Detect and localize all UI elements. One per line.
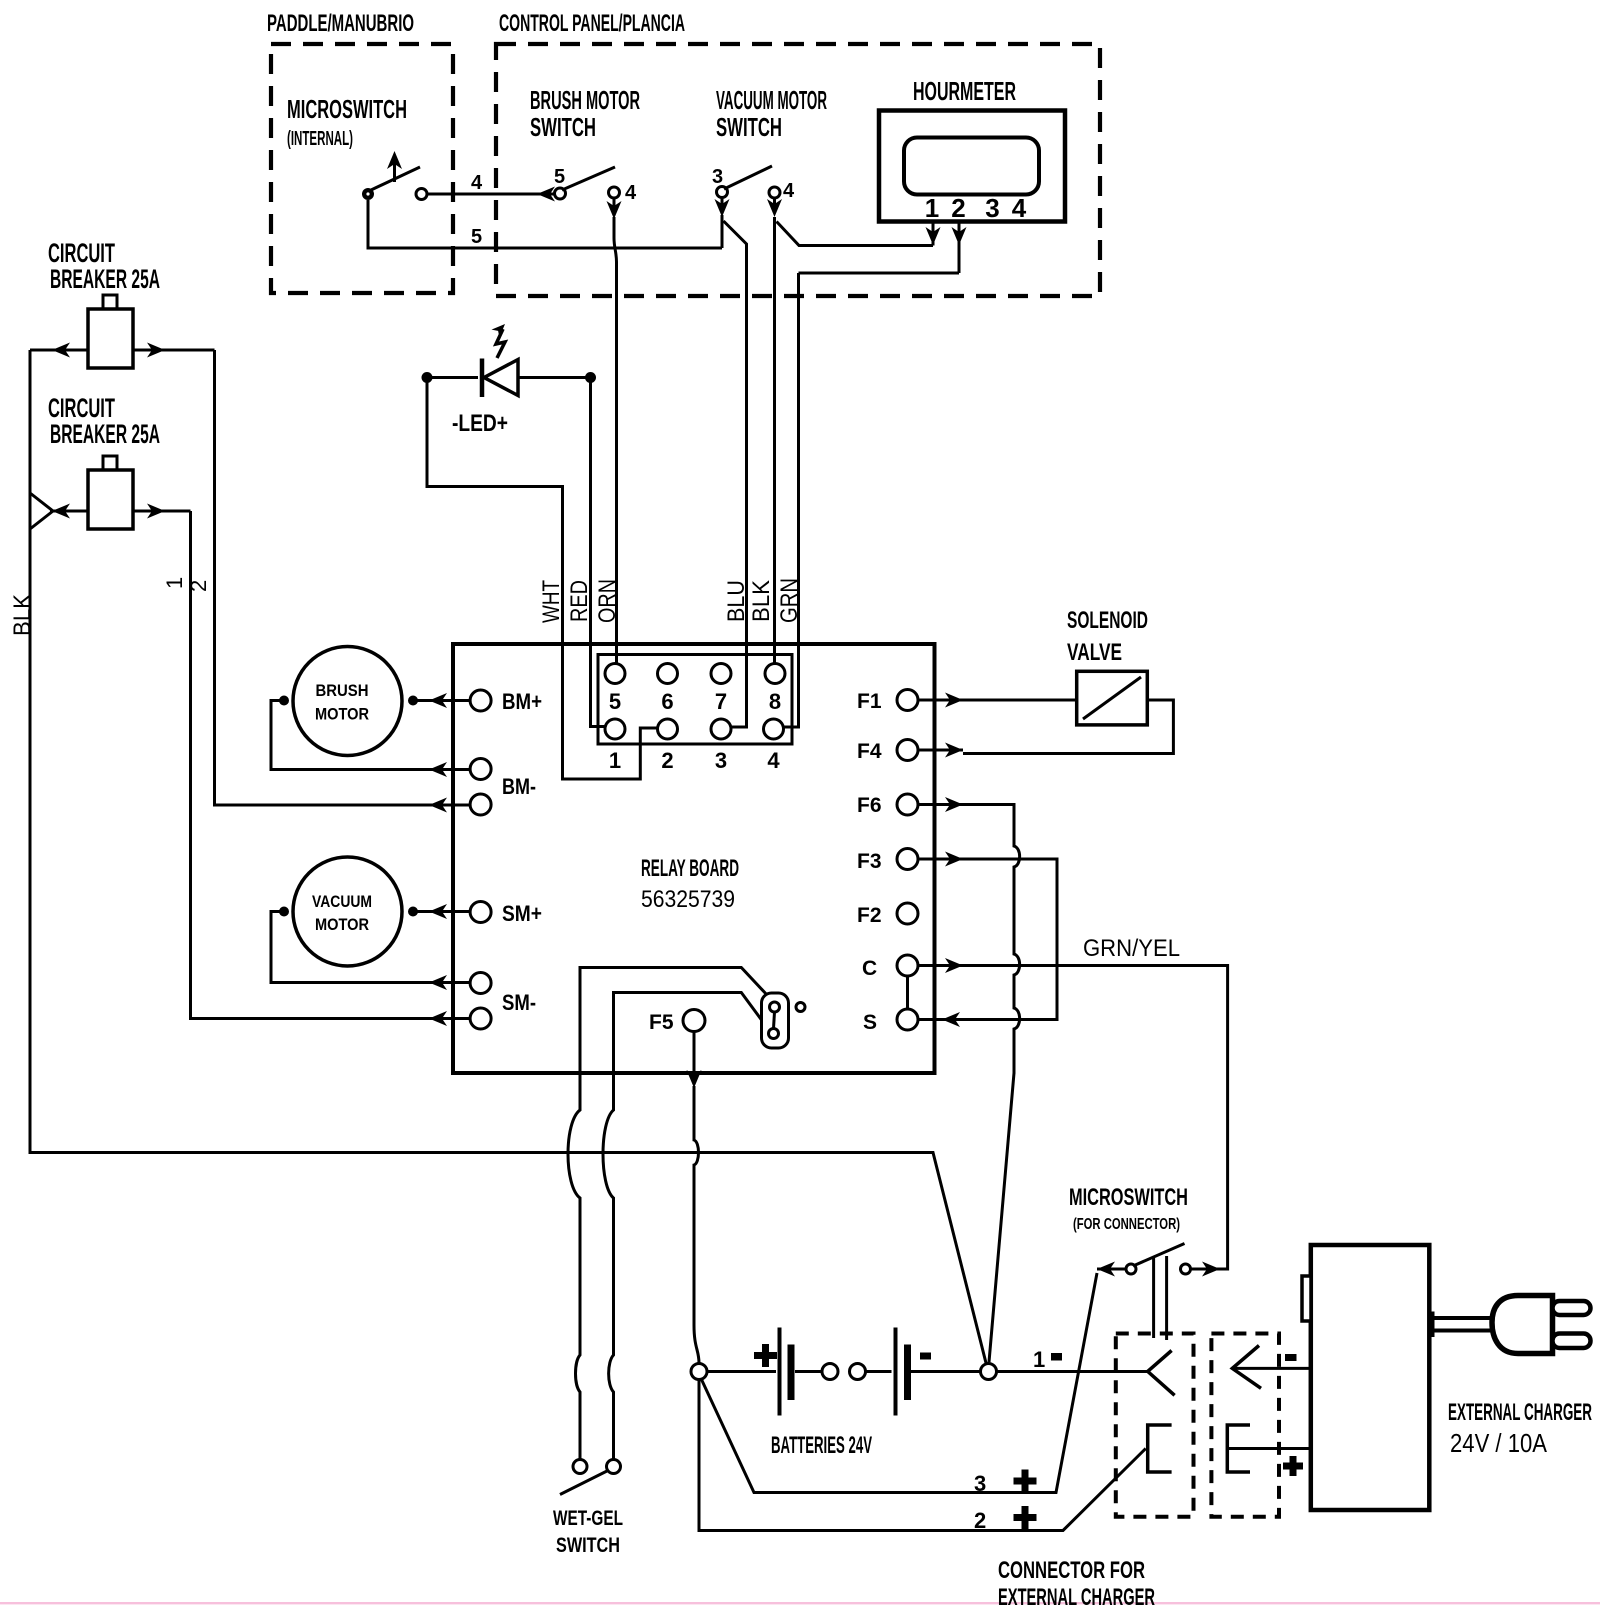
board trace to wet-gel switch left: [580, 968, 768, 1109]
svg-text:BLK: BLK: [9, 594, 36, 636]
terminal C: [862, 955, 963, 980]
terminal BM- bottom: [470, 794, 491, 815]
microswitch S5 (for connector): [1097, 1244, 1191, 1277]
svg-text:4: 4: [471, 172, 483, 194]
battery link circles: [822, 1364, 866, 1380]
node battery junction right: [981, 1364, 997, 1380]
circuit breaker CB2: [30, 456, 191, 529]
svg-text:F2: F2: [857, 904, 882, 927]
svg-text:F5: F5: [649, 1011, 674, 1034]
svg-text:6: 6: [661, 689, 673, 714]
pink scan artifact line: [0, 1602, 1600, 1604]
svg-text:4: 4: [767, 748, 780, 773]
svg-text:CONNECTOR FOR: CONNECTOR FOR: [998, 1557, 1145, 1584]
wet-gel switch label: [553, 1507, 623, 1557]
svg-text:2: 2: [661, 748, 673, 773]
AC cord: [1432, 1312, 1492, 1338]
terminal BM- top: [470, 759, 491, 780]
svg-text:BATTERIES 24V: BATTERIES 24V: [771, 1432, 872, 1459]
jumper plug JP1: [762, 993, 806, 1048]
wire 3 battery junction to connector lug: [702, 1273, 1098, 1496]
svg-text:5: 5: [471, 226, 482, 248]
wire F3 to S: [918, 859, 1057, 1020]
connector pin arrow right top: [1232, 1346, 1311, 1389]
connector pin 3: [711, 719, 731, 739]
terminal F4: [857, 740, 963, 764]
node battery junction left: [691, 1364, 707, 1380]
svg-text:BM-: BM-: [502, 774, 536, 799]
svg-text:BREAKER 25A: BREAKER 25A: [50, 419, 160, 449]
wire vacuum motor loop to SM-: [271, 912, 470, 991]
connector pin 2: [658, 719, 678, 739]
wire GRN (hourmeter pin2 to relay pin 4): [784, 273, 799, 727]
svg-text:SM-: SM-: [502, 990, 536, 1015]
connector pin 6: [658, 664, 678, 684]
wire brush motor loop to BM-: [271, 701, 470, 778]
svg-text:ORN: ORN: [594, 579, 621, 623]
svg-text:SM+: SM+: [502, 901, 542, 926]
connector pin bracket left bottom: [1148, 1425, 1172, 1472]
wire C to microswitch GRN/YEL: [918, 935, 1228, 1277]
connector dashed box right: [1211, 1334, 1279, 1517]
battery B1: [707, 1328, 822, 1416]
wire ORN (brush switch out to relay pin 5): [614, 217, 617, 664]
microswitch dangling leads: [1154, 1256, 1167, 1340]
vacuum motor M3: [279, 857, 418, 966]
svg-text:BLK: BLK: [748, 580, 775, 622]
board trace to wet-gel switch right: [614, 993, 767, 1109]
brush motor M2: [279, 647, 418, 756]
svg-text:SWITCH: SWITCH: [556, 1534, 620, 1557]
link C to S: [906, 976, 909, 1009]
relay board label: [641, 855, 739, 913]
relay connector J1: [598, 655, 792, 774]
terminal S: [863, 1009, 960, 1034]
wire BLU (vacuum switch common to relay pin 3): [724, 221, 747, 727]
svg-text:3: 3: [985, 193, 999, 223]
connector pin 7: [711, 664, 731, 684]
vacuum motor switch label: [716, 85, 827, 142]
terminal F1: [857, 690, 963, 714]
svg-text:C: C: [862, 957, 877, 980]
svg-text:GRN: GRN: [776, 578, 803, 623]
svg-text:EXTERNAL CHARGER: EXTERNAL CHARGER: [1448, 1399, 1592, 1426]
connector pin 1: [605, 719, 625, 739]
svg-text:5: 5: [609, 689, 621, 714]
terminal SM- top: [470, 973, 491, 994]
wire net 5 (microswitch to vacuum switch common): [368, 200, 722, 248]
AC plug: [1492, 1296, 1591, 1354]
vacuum motor switch S3: [712, 166, 795, 217]
connector pin 4: [764, 719, 784, 739]
svg-text:BM+: BM+: [502, 689, 542, 714]
connector for external charger label: [998, 1557, 1155, 1608]
terminal F5: [649, 1010, 705, 1035]
svg-text:WHT: WHT: [538, 580, 565, 623]
svg-text:1: 1: [1033, 1347, 1045, 1372]
svg-text:MOTOR: MOTOR: [315, 915, 369, 934]
wire 2 battery junction to connector pin: [699, 1380, 1146, 1534]
wire BLK (vacuum switch out to relay pin 8): [773, 217, 776, 664]
terminal F3: [857, 849, 963, 874]
wire vacuum motor to SM+: [417, 904, 470, 919]
svg-text:8: 8: [769, 689, 781, 714]
svg-text:3: 3: [974, 1471, 986, 1496]
svg-text:SWITCH: SWITCH: [716, 112, 782, 142]
svg-text:4: 4: [625, 182, 637, 204]
svg-text:3: 3: [712, 166, 723, 188]
connector pin bracket right bottom: [1227, 1425, 1311, 1476]
relay board outline: [453, 644, 935, 1073]
terminal F6: [857, 794, 963, 817]
svg-text:BLU: BLU: [723, 580, 750, 622]
microswitch (for connector) label: [1069, 1184, 1188, 1233]
svg-text:(FOR CONNECTOR): (FOR CONNECTOR): [1073, 1216, 1180, 1233]
external charger box: [1302, 1245, 1429, 1510]
wire F5 down to battery junction: [687, 1032, 702, 1364]
svg-text:F3: F3: [857, 850, 882, 873]
microswitch S1 (internal): [362, 151, 427, 200]
svg-text:1: 1: [609, 748, 621, 773]
brush motor switch S2: [554, 166, 637, 219]
svg-text:3: 3: [715, 748, 727, 773]
svg-text:F1: F1: [857, 690, 882, 713]
svg-text:MICROSWITCH: MICROSWITCH: [1069, 1184, 1188, 1211]
svg-text:VACUUM MOTOR: VACUUM MOTOR: [716, 85, 827, 115]
circuit breaker CB1 label: [48, 238, 160, 294]
microswitch (internal) label: [287, 94, 407, 150]
battery B2: [866, 1328, 981, 1416]
wire WHT (LED- to relay pin 2): [427, 380, 658, 779]
svg-text:HOURMETER: HOURMETER: [913, 76, 1016, 106]
svg-text:RELAY BOARD: RELAY BOARD: [641, 855, 739, 882]
wire 1 (CB2 to SM-): [162, 511, 470, 1026]
svg-text:2: 2: [951, 193, 965, 223]
svg-text:VALVE: VALVE: [1067, 639, 1122, 666]
circuit breaker CB2 label: [48, 393, 160, 449]
terminal F2: [857, 903, 918, 927]
svg-text:BRUSH: BRUSH: [316, 681, 369, 700]
wire vacuum switch out to hourmeter pin 1: [777, 222, 934, 246]
LED D1: [422, 320, 597, 437]
connector pin arrow left top: [1148, 1351, 1175, 1396]
svg-text:-LED+: -LED+: [452, 410, 508, 437]
wire 2 (CB1 to BM-): [186, 350, 470, 813]
svg-text:WET-GEL: WET-GEL: [553, 1507, 623, 1530]
svg-text:4: 4: [783, 180, 795, 202]
connector dashed box left: [1116, 1334, 1194, 1517]
svg-text:F4: F4: [857, 740, 882, 763]
wire BLK battery negative rail: [30, 350, 986, 1363]
terminal SM+: [470, 901, 542, 926]
wet-gel switch S4: [560, 1460, 621, 1495]
wire net 4 (microswitch to brush switch): [427, 172, 555, 202]
hourmeter M1: [879, 111, 1065, 224]
external charger label: [1448, 1399, 1592, 1458]
svg-text:BREAKER 25A: BREAKER 25A: [50, 264, 160, 294]
svg-text:MICROSWITCH: MICROSWITCH: [287, 94, 407, 124]
svg-text:(INTERNAL): (INTERNAL): [287, 128, 353, 150]
svg-text:56325739: 56325739: [641, 886, 735, 913]
hourmeter pin 2 lead: [952, 222, 967, 274]
wire wet-gel left: [568, 1108, 580, 1459]
wire brush motor to BM+: [417, 693, 470, 708]
circuit breaker CB1: [30, 295, 215, 368]
svg-text:RED: RED: [566, 580, 593, 622]
solenoid valve label: [1067, 607, 1148, 666]
svg-text:S: S: [863, 1011, 877, 1034]
wire F1 to solenoid valve: [963, 699, 1077, 702]
hourmeter pin 1 lead: [926, 222, 941, 246]
svg-text:1: 1: [162, 577, 187, 589]
connector pin 5: [605, 664, 625, 684]
wire F6 to battery junction (with hops): [963, 805, 1020, 1363]
wire wet-gel right: [603, 1108, 614, 1459]
svg-text:MOTOR: MOTOR: [315, 705, 369, 724]
svg-text:7: 7: [715, 689, 727, 714]
svg-text:SOLENOID: SOLENOID: [1067, 607, 1148, 634]
connector pin 8: [765, 664, 785, 684]
svg-text:4: 4: [1012, 193, 1027, 223]
brush motor switch label: [530, 85, 640, 142]
svg-text:1: 1: [925, 193, 939, 223]
svg-text:GRN/YEL: GRN/YEL: [1083, 935, 1180, 962]
terminal BM+: [470, 689, 542, 714]
svg-text:VACUUM: VACUUM: [312, 892, 372, 911]
wire solenoid valve to F4: [963, 700, 1173, 754]
svg-text:F6: F6: [857, 794, 882, 817]
svg-text:2: 2: [974, 1508, 986, 1533]
svg-text:5: 5: [554, 166, 565, 188]
terminal SM- bottom: [470, 1008, 491, 1029]
svg-text:CONTROL PANEL/PLANCIA: CONTROL PANEL/PLANCIA: [499, 10, 685, 37]
solenoid valve SV1: [1077, 671, 1148, 725]
wire hourmeter pin 2 to GRN: [799, 272, 960, 275]
svg-text:EXTERNAL CHARGER: EXTERNAL CHARGER: [998, 1584, 1155, 1608]
wire 1 battery to connector: [997, 1347, 1148, 1372]
control panel dashed enclosure: [496, 44, 1100, 296]
svg-text:PADDLE/MANUBRIO: PADDLE/MANUBRIO: [267, 10, 414, 37]
svg-text:SWITCH: SWITCH: [530, 112, 596, 142]
svg-text:BRUSH MOTOR: BRUSH MOTOR: [530, 85, 640, 115]
svg-text:24V / 10A: 24V / 10A: [1450, 1428, 1548, 1458]
paddle dashed enclosure: [271, 44, 453, 293]
wire RED (LED+ to relay pin 1): [591, 380, 605, 727]
